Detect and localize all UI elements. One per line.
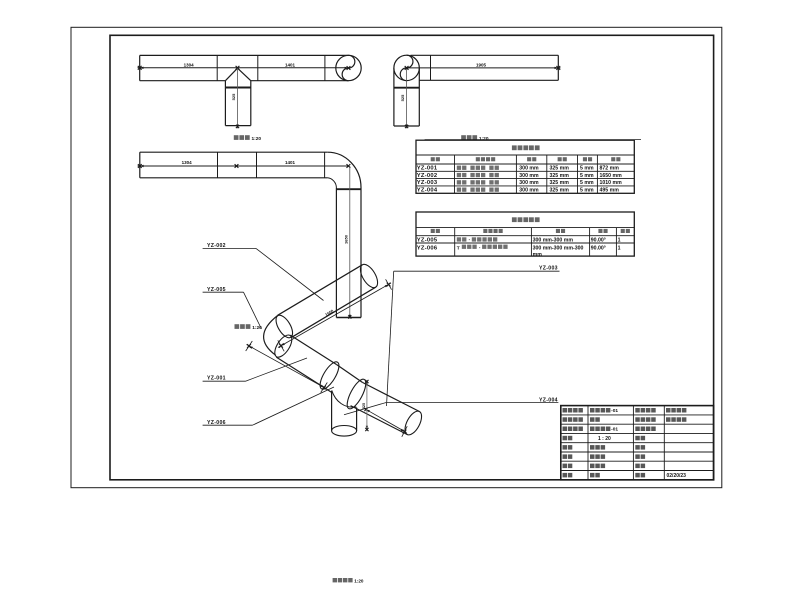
svg-text:325 mm: 325 mm [550,173,570,179]
tee YZ-006 joint ellipses [317,359,343,392]
extension tick [278,340,284,351]
side view horizontal dimension [138,165,349,167]
svg-text:872 mm: 872 mm [600,166,620,172]
svg-text:300 mm: 300 mm [519,173,539,179]
left view horizontal dimension [407,67,561,69]
svg-text:495 mm: 495 mm [600,188,620,194]
side view joint 3 [324,152,326,178]
elbow joint ellipse lower [271,332,295,360]
pipe YZ-004 body [362,382,419,411]
tee body upper edge [337,365,363,383]
front view duct body [140,54,349,56]
sheet inner border [110,35,714,480]
svg-text:300 mm: 300 mm [519,188,539,194]
side view joint thick [336,188,361,190]
svg-text:1: 1 [618,245,621,251]
elbow joint ellipse upper [273,313,296,341]
svg-text:YZ-003: YZ-003 [417,180,438,186]
svg-text:300 mm-300 mm: 300 mm-300 mm [533,237,574,243]
extension tick [246,341,253,351]
side view joint 2 [256,152,258,178]
row YZ-001 type text [457,166,467,170]
svg-text:YZ-001: YZ-001 [207,376,226,382]
table2 title [512,217,540,222]
svg-text:1905: 1905 [476,62,487,67]
side view elbow inner arc [327,178,336,188]
svg-text:1:20: 1:20 [252,325,262,331]
side view vertical dimension [349,166,351,319]
svg-text:T: T [457,245,460,251]
caption side view [235,324,251,329]
title block [561,406,714,480]
front view flow symbol circle [336,55,361,80]
svg-text:1 : 20: 1 : 20 [598,436,611,442]
svg-text:5 mm: 5 mm [580,173,594,179]
caption underline [425,139,641,141]
svg-text:YZ-006: YZ-006 [417,245,438,251]
tee branch cylinder [331,391,333,431]
branch vertical dimension [366,382,368,430]
svg-text:YZ-001: YZ-001 [417,166,438,172]
table 2 fitting schedule [416,212,634,256]
front view tee branch [225,68,237,81]
left view flow symbol circle [394,55,419,80]
pipe YZ-002 end cap ellipse [357,262,381,291]
front view joint line 2 [257,55,259,80]
front view joint line 1 [216,55,218,80]
svg-text:YZ-002: YZ-002 [417,173,438,179]
svg-text:1401: 1401 [285,62,296,67]
svg-text:325 mm: 325 mm [550,166,570,172]
svg-text:300 mm: 300 mm [519,166,539,172]
caption 3D view [333,578,353,582]
svg-text:YZ-003: YZ-003 [539,266,558,272]
dimension YZ-001 [247,345,327,389]
svg-text:300 mm: 300 mm [519,180,539,186]
extension tick [402,426,407,437]
flow S upper [407,55,413,68]
extension tick [386,279,392,289]
svg-text:1304: 1304 [182,160,193,165]
pipe YZ-002 body [278,265,363,316]
tee branch dimension [237,68,239,128]
svg-text:1650 mm: 1650 mm [600,173,623,179]
caption front view [234,135,250,140]
svg-text:1401: 1401 [285,160,296,165]
svg-text:525: 525 [400,94,405,101]
bend type text [457,237,467,241]
side view vertical duct [335,188,337,318]
left view horizontal duct [411,54,559,56]
svg-text:1:20: 1:20 [354,578,364,583]
svg-text:YZ-004: YZ-004 [417,188,438,194]
svg-text:90.00°: 90.00° [591,237,606,243]
extension tick [321,383,328,393]
dimension YZ-002 [278,283,391,348]
front view joint line 3 [324,55,326,80]
branch saddle curve [332,390,357,407]
svg-text:1: 1 [618,237,621,243]
svg-text:5 mm: 5 mm [580,188,594,194]
svg-text:1010 mm: 1010 mm [600,180,623,186]
table1 title [512,145,540,150]
row YZ-002 type text [457,173,467,177]
svg-text:-01: -01 [611,408,618,414]
front view dimension line [138,67,349,69]
tee joint thick line [225,87,250,89]
svg-text:5 mm: 5 mm [580,166,594,172]
tee type text [462,245,477,249]
flow S-curve upper [349,55,355,68]
svg-text:mm: mm [533,252,543,258]
svg-text:-01: -01 [611,427,618,433]
svg-text:02/20/23: 02/20/23 [667,473,687,479]
table 1 pipe schedule [416,140,634,193]
elbow outer curve [264,316,278,356]
svg-text:300 mm-300 mm-300: 300 mm-300 mm-300 [533,245,584,251]
left view vertical dimension [406,68,408,128]
svg-text:525: 525 [231,93,236,100]
svg-text:1:20: 1:20 [479,136,489,142]
pipe YZ-001 body [290,335,336,364]
left view vertical duct [393,68,395,126]
left view joint line [430,55,432,80]
svg-text:325 mm: 325 mm [550,180,570,186]
dimension YZ-004 [364,408,407,432]
side view joint 1 [217,152,219,178]
svg-text:90.00°: 90.00° [591,245,606,251]
svg-text:1:20: 1:20 [252,136,262,142]
tee body lower edge [323,387,332,393]
flow S lower [400,68,406,81]
pipe YZ-004 end cap ellipse [402,409,425,438]
side view elbow outer arc [327,152,361,187]
svg-text:5 mm: 5 mm [580,180,594,186]
svg-text:YZ-005: YZ-005 [417,237,438,243]
row YZ-004 type text [457,188,467,192]
caption left view [461,135,477,140]
branch bottom ellipse [332,426,357,437]
left view joint thick [394,87,419,89]
flow S-curve lower [342,68,348,81]
sheet outer border [71,27,722,487]
svg-text:1304: 1304 [184,62,195,67]
svg-text:325 mm: 325 mm [550,188,570,194]
row YZ-003 type text [457,180,467,184]
side view horizontal duct [140,151,327,153]
svg-text:1650: 1650 [343,234,348,244]
